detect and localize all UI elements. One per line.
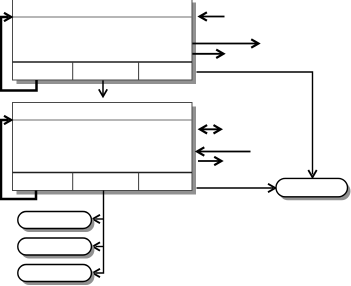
branch arrow to oval E2	[96, 246, 104, 248]
box B2 shadow	[17, 107, 197, 195]
oval E3 shadow	[21, 268, 95, 285]
oval E1	[18, 212, 92, 229]
branch arrow to oval E1	[96, 218, 104, 220]
box B2 cell divider 1	[72, 173, 74, 191]
self-loop arrow of B1	[1, 13, 37, 91]
box B1	[13, 0, 193, 80]
box B1 divider	[13, 16, 193, 18]
incoming arrow into B1 right top	[200, 12, 225, 20]
double-headed arrow at B2	[200, 125, 221, 133]
oval E3	[18, 265, 92, 282]
box B2	[13, 103, 193, 191]
outgoing short arrow from B2	[198, 157, 222, 165]
oval E2 shadow	[21, 242, 95, 259]
connector B2 to oval E4	[197, 184, 276, 192]
box B2 cell divider 2	[138, 173, 140, 191]
trunk line B2 to ovals	[93, 191, 104, 278]
self-loop arrow of B2	[1, 116, 36, 199]
outgoing short arrow from B1	[193, 50, 224, 58]
box B1 shadow	[17, 3, 197, 85]
box B2 cell row top line	[13, 172, 193, 174]
oval E2	[18, 238, 92, 255]
outgoing long arrow from B1	[193, 39, 259, 47]
box B1 cell divider 2	[138, 62, 140, 80]
oval E4	[276, 178, 348, 196]
branch arrow to oval E3	[93, 269, 100, 277]
oval E4 shadow	[279, 182, 351, 200]
box B1 cell divider 1	[72, 62, 74, 80]
connector B1 to oval E4	[197, 72, 317, 177]
box B1 cell row top line	[13, 61, 193, 63]
oval E1 shadow	[21, 215, 95, 232]
box B2 divider	[13, 119, 193, 121]
incoming long arrow into B2	[197, 147, 251, 155]
arrow B1 to B2	[99, 81, 107, 97]
